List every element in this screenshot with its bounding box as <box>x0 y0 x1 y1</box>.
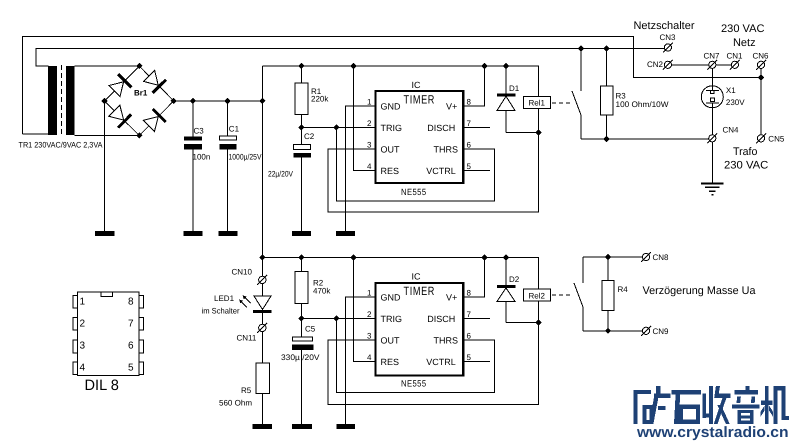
svg-text:VCTRL: VCTRL <box>426 166 456 176</box>
node RES feed top <box>350 63 356 69</box>
svg-text:TIMER: TIMER <box>404 284 436 298</box>
resistor R2 <box>295 258 332 319</box>
svg-text:TIMER: TIMER <box>404 92 436 106</box>
svg-text:3: 3 <box>80 340 86 351</box>
connector CN1 <box>727 51 744 69</box>
wire V+ rail upper <box>262 66 538 96</box>
wire contact to CN9 <box>583 330 642 332</box>
svg-text:CN3: CN3 <box>660 33 677 42</box>
svg-text:GND: GND <box>381 292 402 302</box>
node lower rail tap <box>259 254 265 260</box>
svg-text:3: 3 <box>367 140 372 149</box>
connector CN8 <box>641 252 669 262</box>
svg-text:5: 5 <box>128 363 134 374</box>
svg-text:2: 2 <box>80 319 86 330</box>
transformer TR1 core dashed line <box>60 65 62 135</box>
node D1 top <box>503 63 509 69</box>
node under CN6 <box>758 74 764 80</box>
capacitor C5 <box>281 319 320 425</box>
svg-text:8: 8 <box>128 296 134 307</box>
node V+ pin8 top <box>481 63 487 69</box>
diode D1 <box>497 66 539 133</box>
svg-text:TRIG: TRIG <box>381 123 403 133</box>
svg-text:1: 1 <box>367 288 372 297</box>
connector CN3 <box>660 33 677 52</box>
ground C3 <box>183 231 202 236</box>
svg-text:CN5: CN5 <box>768 134 785 143</box>
node R1 bottom TRIG <box>298 124 304 130</box>
DIL 8 right pins <box>139 296 144 375</box>
svg-text:www.crystalradio.cn: www.crystalradio.cn <box>636 424 789 441</box>
wire CN6 down to CN5 <box>760 68 762 134</box>
wire Rel2 actuation dashed <box>552 294 571 296</box>
char kuang <box>634 386 671 424</box>
wire contact to CN8 <box>583 256 642 258</box>
ground IC2 <box>337 424 356 429</box>
svg-text:X1: X1 <box>726 86 736 95</box>
svg-text:R4: R4 <box>618 285 629 294</box>
wire V+ rail lower <box>262 258 538 290</box>
svg-text:560 Ohm: 560 Ohm <box>219 399 252 408</box>
svg-text:C1: C1 <box>229 125 240 134</box>
char yin <box>732 386 760 424</box>
wire THRS loop IC2 <box>336 319 494 393</box>
resistor R1 <box>295 66 330 128</box>
svg-text:7: 7 <box>128 319 134 330</box>
wire RES net IC2 <box>353 258 375 362</box>
svg-text:100n: 100n <box>193 153 211 162</box>
node R3 top <box>603 45 609 51</box>
wire switch bottom to CN4 <box>581 138 709 140</box>
node R1 top <box>298 63 304 69</box>
svg-text:CN1: CN1 <box>727 51 744 60</box>
svg-text:R5: R5 <box>241 386 252 395</box>
bridge rectifier Br1 frame <box>105 66 174 136</box>
node Rel2 bottom <box>535 320 541 326</box>
node bridge right <box>171 98 177 104</box>
svg-text:im Schalter: im Schalter <box>202 307 240 316</box>
connector CN4 <box>707 125 739 143</box>
svg-text:Trafo: Trafo <box>733 146 757 158</box>
svg-text:100 Ohm/10W: 100 Ohm/10W <box>616 100 669 109</box>
svg-text:GND: GND <box>381 101 402 111</box>
resistor R4 <box>602 257 628 331</box>
node C1 tap <box>224 98 230 104</box>
wire THRS loop IC1 <box>336 128 494 202</box>
svg-text:1000µ/25V: 1000µ/25V <box>229 153 263 162</box>
pin 8 V+ wire IC1 <box>463 66 484 106</box>
svg-text:THRS: THRS <box>434 335 459 345</box>
DIL 8 package body <box>78 292 140 376</box>
capacitor C3 <box>184 101 210 231</box>
wire TRIG net lower <box>301 318 375 320</box>
node switch top <box>578 45 584 51</box>
node V+ pin8 lower <box>481 254 487 260</box>
svg-text:7: 7 <box>467 310 472 319</box>
ground C1 <box>218 231 237 236</box>
connector CN5 <box>756 133 785 143</box>
wire outer primary rail (top-left up over to right side) <box>23 37 762 135</box>
diode Br1 bottom-left <box>109 105 131 127</box>
svg-text:4: 4 <box>367 162 372 171</box>
node R4 top <box>605 254 611 260</box>
svg-text:8: 8 <box>467 97 472 106</box>
transformer TR1 secondary winding <box>66 66 75 135</box>
svg-text:2: 2 <box>367 119 372 128</box>
char shou <box>703 386 731 424</box>
svg-text:6: 6 <box>128 340 134 351</box>
resistor R5 <box>219 332 270 424</box>
transformer TR1 primary winding <box>48 66 57 135</box>
node C3 tap <box>190 98 196 104</box>
resistor R3 <box>601 49 669 140</box>
node bridge bottom <box>136 132 142 138</box>
svg-text:230 VAC: 230 VAC <box>724 160 768 172</box>
svg-text:Rel1: Rel1 <box>529 98 546 107</box>
svg-text:NE555: NE555 <box>401 378 427 388</box>
node D2 top <box>503 254 509 260</box>
svg-text:RES: RES <box>381 357 400 367</box>
svg-text:C3: C3 <box>194 126 205 135</box>
svg-text:DISCH: DISCH <box>427 123 455 133</box>
svg-text:Netzschalter: Netzschalter <box>634 20 695 32</box>
svg-text:LED1: LED1 <box>214 294 235 303</box>
svg-text:NE555: NE555 <box>401 187 427 197</box>
pin 5 VCTRL stub IC2 <box>463 361 490 363</box>
wire secondary bottom to bridge <box>75 135 140 137</box>
capacitor C1 <box>219 101 262 231</box>
connector CN2 <box>647 60 673 70</box>
ground bridge minus <box>95 231 115 236</box>
svg-text:CN7: CN7 <box>704 51 721 60</box>
pin 8 V+ wire IC2 <box>463 258 484 298</box>
svg-text:220k: 220k <box>311 95 329 104</box>
pin 7 DISCH stub IC1 <box>463 127 490 129</box>
pin names IC1 <box>381 101 459 176</box>
wire CN2 to CN7 <box>672 64 709 66</box>
node Rel1 bottom <box>535 130 541 136</box>
char ji <box>761 386 789 424</box>
diode D2 <box>497 258 539 323</box>
svg-text:4: 4 <box>367 353 372 362</box>
wire secondary top to bridge <box>75 65 140 67</box>
svg-text:D1: D1 <box>509 84 520 93</box>
connector CN9 <box>641 326 669 336</box>
wire OUT net IC1 <box>328 133 538 212</box>
svg-text:230 VAC: 230 VAC <box>721 23 765 35</box>
wire inner rail to CN3 <box>36 49 664 67</box>
node RES feed lower <box>350 254 356 260</box>
svg-text:CN10: CN10 <box>232 268 253 277</box>
wire CN4 to earth <box>711 142 713 183</box>
watermark crystalradio logo <box>634 386 790 424</box>
svg-text:IC: IC <box>412 271 422 281</box>
node bridge left <box>101 98 107 104</box>
connector CN6 <box>753 51 770 69</box>
svg-text:CN6: CN6 <box>753 51 770 60</box>
svg-text:VCTRL: VCTRL <box>426 357 456 367</box>
svg-text:DIL 8: DIL 8 <box>85 377 119 394</box>
svg-text:3: 3 <box>367 331 372 340</box>
diode Br1 bottom-right <box>144 109 166 131</box>
ground C5 <box>292 424 312 429</box>
svg-text:THRS: THRS <box>434 144 459 154</box>
svg-text:230V: 230V <box>726 98 745 107</box>
capacitor C2 <box>268 128 315 232</box>
svg-text:IC: IC <box>412 80 422 90</box>
diode Br1 top-right <box>144 71 166 93</box>
node TRIG-THRS tie <box>333 124 339 130</box>
relay coil Rel1 <box>524 96 551 132</box>
pin 7 DISCH stub IC2 <box>463 318 490 320</box>
node R2 top <box>298 254 304 260</box>
earth ground symbol <box>701 184 724 195</box>
svg-text:7: 7 <box>467 119 472 128</box>
relay coil Rel2 <box>524 289 551 323</box>
wire Rel1 actuation dashed <box>552 102 571 104</box>
svg-text:OUT: OUT <box>381 335 401 345</box>
svg-text:D2: D2 <box>509 275 520 284</box>
wire DC plus bus <box>174 100 263 102</box>
svg-text:C5: C5 <box>305 324 316 333</box>
svg-text:CN4: CN4 <box>723 125 740 134</box>
node main bus to vertical <box>259 98 265 104</box>
svg-text:5: 5 <box>467 353 472 362</box>
svg-text:OUT: OUT <box>381 144 401 154</box>
node R3 bottom <box>603 136 609 142</box>
connector CN11 <box>237 323 268 343</box>
LED LED1 <box>202 284 272 325</box>
connector CN10 <box>232 268 268 285</box>
svg-text:Br1: Br1 <box>134 88 148 97</box>
lamp X1 <box>701 68 745 134</box>
svg-text:C2: C2 <box>304 132 315 141</box>
wire TRIG net <box>301 127 375 129</box>
svg-text:1: 1 <box>367 97 372 106</box>
pin numbers IC1 <box>367 97 472 171</box>
ground IC1 <box>336 231 355 236</box>
switch relay contact lower <box>574 257 583 331</box>
pin names IC2 <box>381 292 459 367</box>
svg-text:22µ/20V: 22µ/20V <box>268 169 294 178</box>
svg-text:4: 4 <box>80 363 86 374</box>
svg-text:RES: RES <box>381 166 400 176</box>
wire RES net IC1 <box>353 66 375 171</box>
ground R5 <box>253 424 273 429</box>
DIL 8 left pins <box>73 296 78 375</box>
svg-text:DISCH: DISCH <box>427 314 455 324</box>
wire CN7 to CN1 <box>716 64 731 66</box>
timer IC1 NE555 box <box>376 91 464 183</box>
node TRIG-THRS tie lower <box>333 315 339 321</box>
svg-text:Netz: Netz <box>733 37 756 49</box>
pin 5 VCTRL stub IC1 <box>463 170 490 172</box>
timer IC2 NE555 box <box>376 283 464 376</box>
svg-text:6: 6 <box>467 140 472 149</box>
svg-text:CN11: CN11 <box>237 334 257 343</box>
svg-text:Rel2: Rel2 <box>529 291 546 300</box>
svg-text:CN2: CN2 <box>647 60 664 69</box>
wire GND net IC2 <box>346 297 376 424</box>
svg-text:V+: V+ <box>446 292 457 302</box>
wire bridge left node to ground <box>104 101 106 231</box>
svg-text:470k: 470k <box>313 286 331 295</box>
svg-text:6: 6 <box>467 331 472 340</box>
wire long vertical feed <box>261 66 263 276</box>
pin numbers IC2 <box>367 288 472 362</box>
DIL 8 pin numbers <box>80 296 135 373</box>
char shi <box>671 390 701 424</box>
svg-text:Verzögerung Masse Ua: Verzögerung Masse Ua <box>643 285 757 297</box>
wire primary bottom stub <box>23 133 49 135</box>
svg-text:8: 8 <box>467 288 472 297</box>
node R2 bottom TRIG2 <box>298 315 304 321</box>
svg-text:CN8: CN8 <box>653 253 670 262</box>
switch Netzschalter contact <box>572 49 581 140</box>
wire GND net IC1 <box>346 106 376 231</box>
diode Br1 top-left <box>109 74 131 96</box>
node R4 bottom <box>605 328 611 334</box>
svg-text:V+: V+ <box>446 101 457 111</box>
svg-text:TR1 230VAC/9VAC 2,3VA: TR1 230VAC/9VAC 2,3VA <box>19 140 104 149</box>
svg-text:CN9: CN9 <box>653 327 670 336</box>
svg-text:2: 2 <box>367 310 372 319</box>
svg-text:5: 5 <box>467 162 472 171</box>
svg-text:330µ /20V: 330µ /20V <box>281 353 320 362</box>
DIL 8 notch <box>101 292 113 297</box>
svg-text:TRIG: TRIG <box>381 314 403 324</box>
ground C2 <box>292 231 311 236</box>
connector CN7 <box>704 51 721 69</box>
wire OUT net IC2 <box>328 323 538 405</box>
svg-text:1: 1 <box>80 296 86 307</box>
node bridge top <box>136 63 142 69</box>
